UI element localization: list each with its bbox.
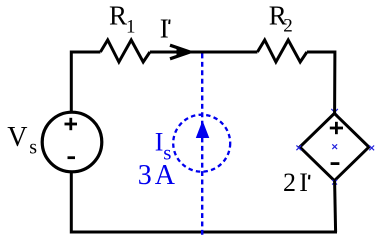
wire top-left segment: [71, 52, 100, 113]
node marker right vertex: [369, 146, 374, 151]
wire bottom-left segment: [71, 173, 337, 233]
wire top-middle segment: [150, 51, 258, 54]
dashed node line through Is: [201, 54, 203, 236]
label R1: [109, 0, 136, 37]
svg-text:2: 2: [283, 168, 296, 197]
resistor R1: [100, 40, 149, 62]
label R2: [269, 0, 293, 36]
svg-text:1: 1: [126, 17, 136, 38]
label Is: [155, 128, 172, 165]
resistor R2: [257, 40, 307, 62]
node marker center: [332, 144, 337, 149]
svg-text:R: R: [109, 0, 127, 30]
node marker bottom vertex: [332, 180, 337, 185]
svg-text:2: 2: [283, 16, 293, 37]
svg-text:I: I: [160, 13, 169, 43]
diamond minus sign: [331, 162, 340, 165]
Vs plus sign: [65, 118, 78, 130]
current arrow I' on top wire: [170, 45, 192, 59]
node marker top vertex: [331, 109, 338, 116]
svg-text:3: 3: [138, 160, 152, 191]
svg-text:s: s: [29, 137, 37, 159]
wire right-bottom segment: [335, 181, 336, 232]
label Vs: [7, 122, 37, 159]
diamond plus sign: [330, 122, 343, 134]
svg-text:V: V: [7, 122, 27, 153]
Is arrow: [196, 121, 210, 139]
current source Is circle: [173, 115, 230, 172]
svg-text:I: I: [155, 128, 164, 157]
voltage source Vs circle: [42, 112, 102, 172]
Vs minus sign: [68, 156, 76, 159]
node marker left vertex: [296, 145, 301, 150]
dependent source diamond 2I': [300, 113, 369, 180]
wire top-right segment: [307, 52, 335, 113]
svg-text:I: I: [299, 168, 308, 197]
svg-text:A: A: [155, 160, 176, 191]
